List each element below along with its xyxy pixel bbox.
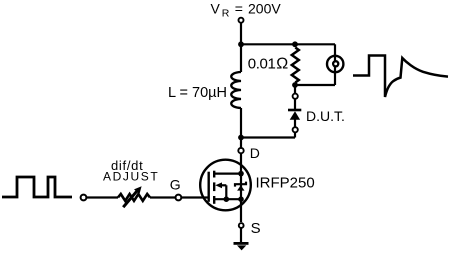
- svg-text:L = 70µH: L = 70µH: [168, 85, 227, 101]
- svg-text:V: V: [211, 0, 221, 16]
- svg-text:Ω: Ω: [276, 56, 288, 73]
- svg-text:R: R: [222, 7, 230, 19]
- svg-text:D.U.T.: D.U.T.: [306, 108, 345, 124]
- svg-text:G: G: [170, 176, 181, 192]
- svg-text:S: S: [251, 220, 261, 237]
- svg-text:IRFP250: IRFP250: [256, 174, 315, 191]
- svg-text:=: =: [235, 0, 243, 16]
- svg-text:0.01: 0.01: [248, 56, 276, 73]
- svg-text:200V: 200V: [248, 0, 281, 16]
- svg-text:D: D: [250, 145, 260, 161]
- svg-text:ADJUST: ADJUST: [103, 170, 159, 184]
